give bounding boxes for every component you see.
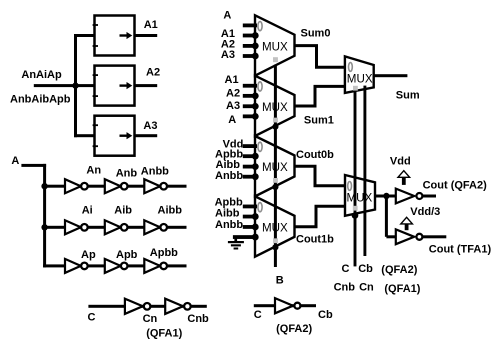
input tick 1,0 xyxy=(243,84,257,88)
input tick 2,0 xyxy=(243,144,257,148)
wire ground input tick xyxy=(233,235,257,239)
svg-text:A: A xyxy=(223,9,231,21)
junction Cout branch xyxy=(383,193,389,199)
junction select U6 xyxy=(352,212,359,219)
svg-text:An: An xyxy=(86,165,101,177)
input tick 0,1 xyxy=(243,34,257,38)
wire select net Cb vertical xyxy=(363,86,366,256)
svg-text:Ai: Ai xyxy=(82,205,93,217)
input tick 1,2 xyxy=(243,104,257,108)
inverter Cout TFA1 xyxy=(396,229,423,244)
svg-text:Cn: Cn xyxy=(143,313,158,325)
svg-text:A2: A2 xyxy=(146,66,160,78)
wire Sum1 to sum-mux xyxy=(295,86,349,106)
junction select line xyxy=(272,184,278,190)
wire Cout branch vertical xyxy=(385,196,388,237)
junction select line xyxy=(272,124,278,130)
mux U3 Cout0b body xyxy=(255,136,295,196)
wire C chain QFA2 xyxy=(254,304,316,307)
input tick 2,2 xyxy=(243,165,257,169)
wire select net C vertical xyxy=(354,90,357,266)
junction input dot xyxy=(252,43,259,50)
select pin square overlay Sum1 xyxy=(273,118,278,123)
wire output A1 xyxy=(135,34,158,37)
svg-text:A2: A2 xyxy=(226,88,240,100)
select pin square Cout0b xyxy=(273,178,278,183)
inverter Cn xyxy=(125,299,151,314)
select pin square Sum0 xyxy=(273,57,278,62)
svg-text:Anbb: Anbb xyxy=(141,166,169,178)
svg-text:Anb: Anb xyxy=(116,167,138,179)
wire Cout1b to cout-mux xyxy=(295,206,349,227)
junction input dot xyxy=(252,163,259,170)
svg-text:A: A xyxy=(228,114,236,126)
mux U4 Cout1b body xyxy=(255,196,295,256)
wire Cout (QFA2) output xyxy=(422,195,436,198)
wire output A3 xyxy=(135,134,158,137)
svg-text:Cb: Cb xyxy=(358,263,373,275)
wire Cout (TFA1) output xyxy=(422,235,446,238)
select pin square overlay Cout1b xyxy=(273,238,278,243)
svg-text:MUX: MUX xyxy=(347,73,373,86)
junction A to An row xyxy=(41,183,47,189)
svg-text:Anbb: Anbb xyxy=(215,170,243,182)
wire Sum0 to sum-mux xyxy=(295,46,349,68)
svg-text:Aib: Aib xyxy=(114,205,132,217)
inverter Apbb xyxy=(144,259,167,273)
junction input dot xyxy=(252,53,259,60)
svg-text:C: C xyxy=(342,263,350,275)
svg-text:Vdd: Vdd xyxy=(390,155,411,167)
wire select net B vertical xyxy=(274,65,277,267)
ground xyxy=(228,236,244,249)
svg-text:Cnb: Cnb xyxy=(334,281,356,293)
wire A input xyxy=(21,164,46,167)
junction input dot xyxy=(252,224,259,231)
svg-text:(QFA1): (QFA1) xyxy=(384,283,420,295)
input tick 1,3 xyxy=(243,114,257,118)
svg-text:Sum: Sum xyxy=(396,90,420,102)
input tick 0,0 xyxy=(243,24,257,28)
junction select line xyxy=(272,244,278,250)
svg-text:Apbb: Apbb xyxy=(215,196,243,208)
junction input bus xyxy=(72,82,78,88)
junction input dot xyxy=(252,173,259,180)
inverter Aibb xyxy=(144,220,167,234)
wire AnAiAp input xyxy=(34,84,95,87)
svg-text:MUX: MUX xyxy=(262,41,288,54)
svg-text:Sum0: Sum0 xyxy=(301,28,331,40)
mux U1 Sum0 body xyxy=(255,15,295,75)
svg-text:(QFA1): (QFA1) xyxy=(146,327,182,339)
svg-text:AnAiAp: AnAiAp xyxy=(21,69,62,81)
mux U5 Sum body xyxy=(345,56,374,93)
junction input dot xyxy=(252,213,259,220)
wire Sum output xyxy=(374,74,408,77)
input tick 1,1 xyxy=(243,94,257,98)
svg-text:A3: A3 xyxy=(143,120,157,132)
select pin square overlay Cout0b xyxy=(273,178,278,183)
wire An inverter row xyxy=(43,185,186,188)
wire Ap inverter row xyxy=(43,264,186,267)
inverter Cout QFA2 xyxy=(396,189,423,204)
power symbol Vdd/3 xyxy=(401,217,413,230)
wire Cout mux output xyxy=(375,195,396,198)
select pin square U5 xyxy=(353,86,358,91)
wire C chain QFA1 xyxy=(88,305,206,308)
inverter Aib xyxy=(105,220,128,234)
wire stub to box A3 xyxy=(74,134,95,137)
wire stub to box A1 xyxy=(74,34,95,37)
pin label 0 of Sum1 xyxy=(258,82,262,91)
svg-text:Aibb: Aibb xyxy=(158,205,183,217)
svg-text:Anbb: Anbb xyxy=(215,219,243,231)
svg-text:Cout (QFA2): Cout (QFA2) xyxy=(423,180,487,192)
svg-text:Apbb: Apbb xyxy=(150,247,178,259)
pin label 0 of U5 xyxy=(349,63,353,72)
junction input dot xyxy=(252,113,259,120)
svg-text:Cnb: Cnb xyxy=(187,313,209,325)
junction input dot xyxy=(252,234,259,241)
svg-text:Cb: Cb xyxy=(318,309,333,321)
wire output A2 xyxy=(135,84,158,87)
input tick 0,3 xyxy=(243,54,257,58)
select pin square Sum1 xyxy=(273,118,278,123)
svg-text:Cout0b: Cout0b xyxy=(296,149,334,161)
pin label 0 of Cout0b xyxy=(258,142,262,151)
junction A to Ai row xyxy=(41,224,47,230)
svg-text:Cout (TFA1): Cout (TFA1) xyxy=(429,244,492,256)
select pin square U6 xyxy=(353,206,358,211)
pin label 0 of Sum0 xyxy=(258,22,262,31)
wire Ai inverter row xyxy=(43,226,186,229)
svg-text:A3: A3 xyxy=(221,49,235,61)
inverter Anbb xyxy=(144,179,167,193)
svg-text:Vdd/3: Vdd/3 xyxy=(410,206,440,218)
input tick 2,3 xyxy=(243,175,257,179)
input tick 3,2 xyxy=(243,225,257,229)
junction input dot xyxy=(252,103,259,110)
junction input dot xyxy=(252,92,259,99)
buffer box A3 xyxy=(93,116,135,156)
inverter Cnb xyxy=(165,299,191,314)
select pin square Cout1b xyxy=(273,238,278,243)
pin label 0 of U6 xyxy=(348,182,352,191)
svg-text:A1: A1 xyxy=(144,19,158,31)
svg-text:Cout1b: Cout1b xyxy=(296,234,334,246)
wire vertical input bus xyxy=(74,34,77,137)
svg-text:MUX: MUX xyxy=(347,192,373,205)
svg-text:A3: A3 xyxy=(226,100,240,112)
input tick 0,2 xyxy=(243,44,257,48)
inverter Cb xyxy=(275,298,300,313)
svg-text:A1: A1 xyxy=(225,74,239,86)
svg-text:Apb: Apb xyxy=(116,249,138,261)
svg-text:Cn: Cn xyxy=(359,281,374,293)
inverter An xyxy=(65,179,88,193)
wire Cout0b to cout-mux xyxy=(295,166,349,185)
junction input dot xyxy=(252,153,259,160)
input tick 2,1 xyxy=(243,154,257,158)
pin label 0 of Cout1b xyxy=(258,203,262,212)
svg-text:A: A xyxy=(11,155,19,167)
inverter Ap xyxy=(65,259,88,273)
wire Cout branch to TFA1 inverter xyxy=(386,235,395,238)
select pin square overlay Sum0 xyxy=(273,57,278,62)
inverter Ai xyxy=(65,220,88,234)
power symbol Vdd xyxy=(398,171,410,185)
svg-text:(QFA2): (QFA2) xyxy=(381,264,417,276)
svg-text:C: C xyxy=(254,309,262,321)
inverter Apb xyxy=(105,259,128,273)
inverter Anb xyxy=(105,179,128,193)
input tick 3,1 xyxy=(243,215,257,219)
input tick 3,0 xyxy=(243,205,257,209)
svg-text:B: B xyxy=(276,275,284,287)
svg-text:Sum1: Sum1 xyxy=(304,115,334,127)
svg-text:(QFA2): (QFA2) xyxy=(276,323,312,335)
mux U2 Sum1 body xyxy=(255,76,295,136)
svg-text:Ap: Ap xyxy=(81,249,96,261)
buffer box A1 xyxy=(93,16,135,56)
junction input dot xyxy=(252,32,259,39)
svg-text:Aibb: Aibb xyxy=(215,208,240,220)
svg-text:AnbAibApb: AnbAibApb xyxy=(10,94,71,106)
buffer box A2 xyxy=(93,66,135,106)
svg-text:C: C xyxy=(88,312,96,324)
wire A vertical bus xyxy=(43,164,46,268)
mux U6 Cout body xyxy=(345,175,375,216)
